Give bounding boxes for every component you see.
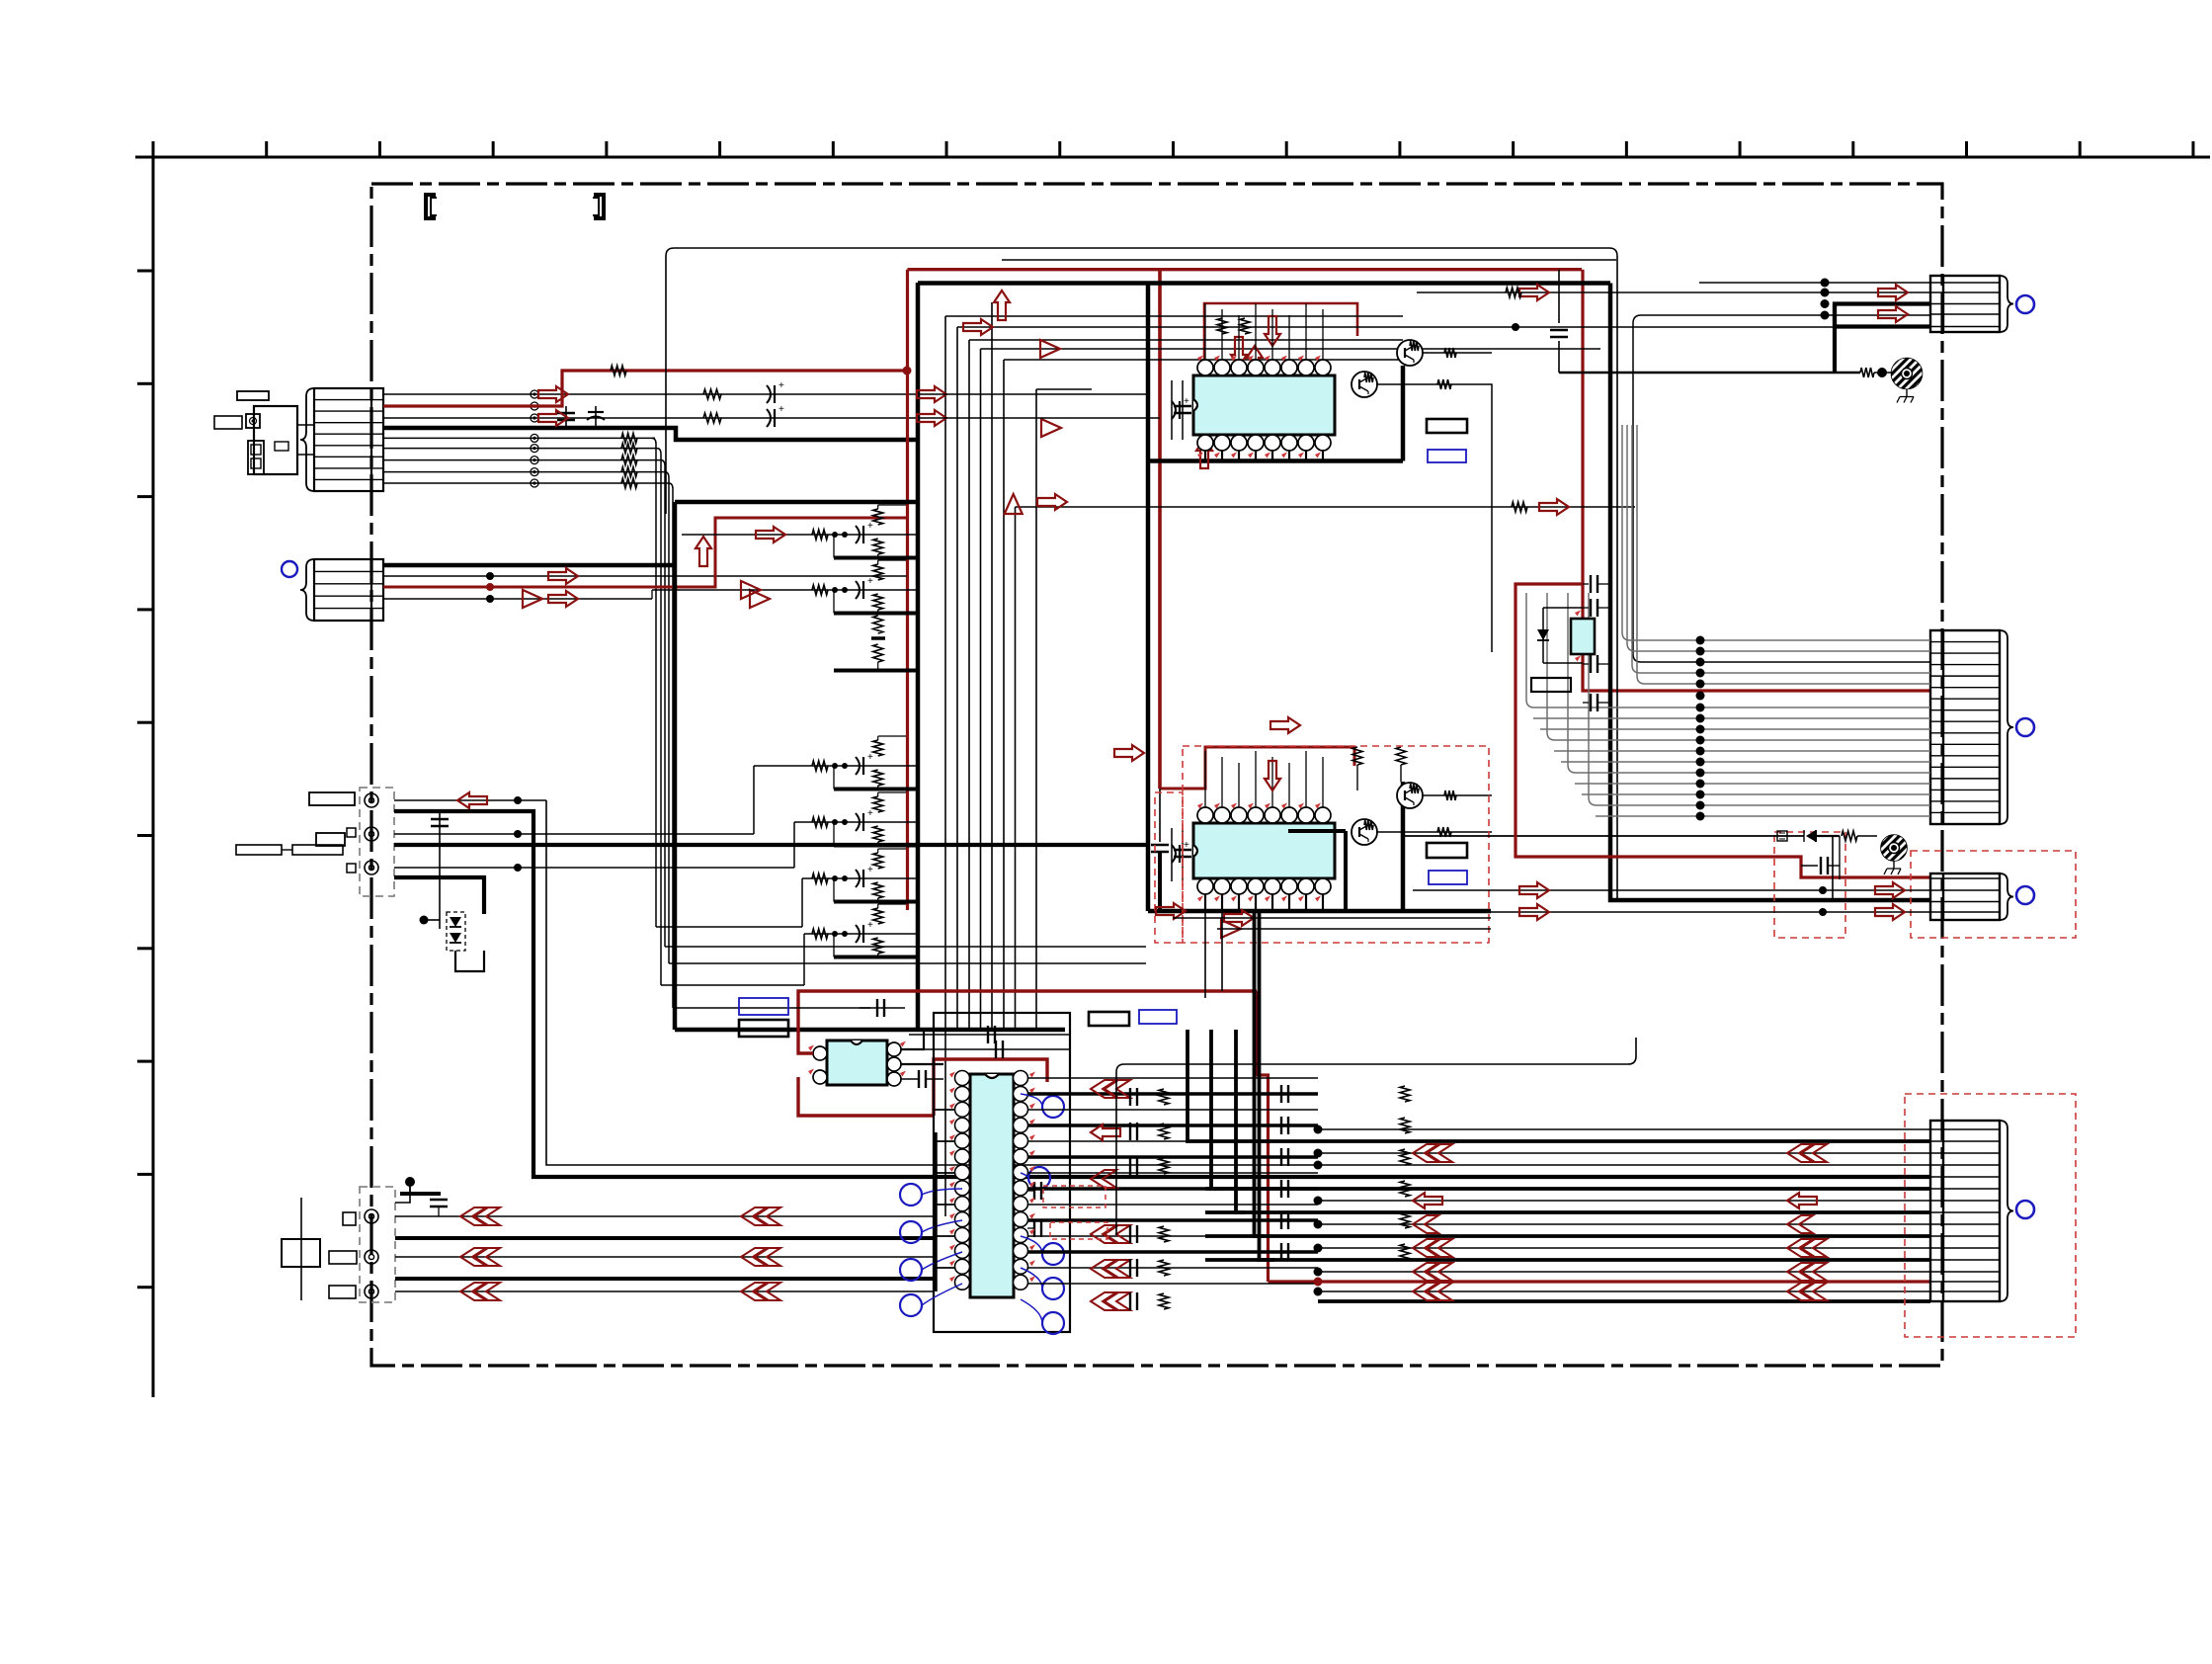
capacitor C-IC1a — [1172, 380, 1191, 440]
svg-text:+: + — [867, 521, 873, 532]
wire TB1 vertical thin run — [546, 800, 1930, 1165]
label box IC4 part-no — [1089, 1012, 1129, 1026]
resistor R-IC2 pullups — [1352, 747, 1406, 790]
wire IC2 bottom drops — [1205, 911, 1222, 998]
wire bus rows to CN-R4 — [1205, 1129, 1930, 1301]
arrow TB2 chevrons — [460, 1207, 780, 1300]
connector CN2 body — [300, 559, 383, 621]
op-amp IC1 body — [1193, 360, 1335, 451]
wire ground run CN-R1 — [1559, 368, 1891, 377]
wire red drop to CN-R2 — [1583, 270, 1930, 691]
filter parts left of bus — [1130, 1088, 1169, 1310]
diode D-TB1 pair — [420, 912, 485, 971]
wire IC2 aux collector — [1376, 827, 1492, 837]
capacitor C-IC2a — [1172, 828, 1191, 881]
wire CN1 pin4 thick bus — [383, 428, 918, 440]
wire red net from CN1 pin2 — [383, 371, 907, 406]
board name bracket right — [593, 195, 604, 218]
arrow IC4 chevrons — [1091, 1080, 1130, 1310]
diode D-IC5 — [1537, 608, 1583, 663]
junction dots upper rows — [903, 323, 1520, 375]
wire TB2 row thick2 — [395, 1277, 934, 1281]
wire bus staircase thick — [1188, 911, 1274, 1260]
arrow signal right-3 — [917, 410, 946, 426]
capacitor C-CNR1 — [1550, 270, 1568, 373]
wire CN-R3 pin2 — [1413, 886, 1930, 894]
junction CN1 pin node symbols — [531, 390, 538, 487]
wire IC1 bottom pin leads — [1205, 451, 1323, 460]
wire CN1 row1 extension — [933, 393, 1148, 395]
terminal TB1 labels — [236, 792, 356, 873]
wire red top bus — [908, 268, 1583, 271]
filter cluster row1 — [682, 505, 918, 558]
dashed box small near IC4 b — [1050, 1222, 1107, 1239]
connector CN1 mating block — [214, 391, 314, 474]
capacitor C-TB1 — [431, 811, 449, 929]
wire CN1 row3 extension — [933, 417, 1160, 419]
emi filter FB1 — [1777, 831, 1787, 841]
board name bracket left — [426, 195, 437, 218]
wire IC2 bottom pin leads — [1205, 894, 1323, 911]
label box IC2 ref (blue) — [1429, 871, 1467, 884]
junction dots CN-R2 — [1696, 636, 1705, 821]
dashed box around IC2 left — [1155, 792, 1183, 943]
regulator IC5 body — [1571, 619, 1595, 654]
wire thick bus vertical F — [1146, 284, 1151, 850]
wire TB1 pin1b thick run — [394, 811, 1930, 1177]
transistor Q1 — [1352, 372, 1377, 397]
arrow signal up-2 — [1005, 494, 1023, 514]
wire red vertical bus B — [1158, 270, 1162, 789]
transistor Q2 — [1397, 340, 1423, 366]
capacitor C-CN1a — [557, 406, 575, 428]
dashed box small near IC4 a — [1043, 1186, 1106, 1207]
wire IC3 right leads — [901, 1028, 943, 1088]
arrow signal tri-2 — [1041, 419, 1061, 437]
wire red branch over IC1 — [1204, 303, 1357, 371]
svg-text:+: + — [867, 808, 873, 819]
filter cluster row3 — [754, 736, 918, 834]
capacitor C-CN1c — [767, 380, 784, 427]
diode D-zener — [1804, 830, 1840, 842]
capacitor C-IC5b — [1583, 655, 1610, 711]
wire IC4 right fanout rows — [1028, 1078, 1318, 1284]
filter cluster row5 — [802, 849, 918, 927]
wire thick bus top — [918, 281, 1610, 286]
wire TB1 pin2 long — [394, 830, 754, 838]
node IC4 test points (blue) — [900, 1094, 1064, 1334]
transistor Q3 — [1352, 819, 1377, 845]
svg-text:+: + — [778, 380, 784, 391]
connector CN-R3 body — [1930, 874, 2013, 920]
wire thick IC1 ground bus — [1148, 366, 1403, 461]
wire IC2 aux collector2 — [1422, 790, 1492, 800]
wire TB2 pin2 — [395, 1256, 934, 1258]
wire IC2 lower thin row — [1173, 918, 1491, 929]
label box IC1 part-no — [1427, 419, 1467, 433]
svg-text:+: + — [867, 920, 873, 931]
wire CN-R1 pin4 — [1633, 299, 1930, 662]
dashed box CN-R3 — [1911, 851, 2076, 938]
wire IC1 aux collector — [1376, 379, 1492, 652]
resistor R-CN1a — [703, 389, 721, 423]
ic IC4 body — [955, 1071, 1028, 1298]
wire CN-R1 pin5 thick — [1835, 304, 1930, 327]
label box bottom blue — [739, 998, 788, 1015]
resistor marks upper — [611, 366, 1527, 512]
resistor R-CNR1 — [1506, 288, 1521, 297]
capacitor C-IC5a — [1583, 575, 1610, 617]
filter cluster row2 — [652, 560, 918, 614]
red pin tick marks — [808, 356, 1581, 1283]
arrow bus chevrons col1 — [1413, 1144, 1452, 1300]
svg-text:+: + — [867, 576, 873, 587]
wire TB1 pin1 sense — [394, 796, 546, 804]
wire right area verticals — [1832, 836, 1834, 900]
label box IC4 ref (blue) — [1139, 1010, 1177, 1024]
wire thick bus bottom — [675, 1028, 1065, 1033]
svg-text:+: + — [778, 404, 784, 415]
wire CN-R2 top feed bundle — [1622, 425, 1930, 684]
wire red vertical bus A — [906, 270, 909, 910]
wire red zener feed — [1516, 584, 1930, 877]
label box IC5 — [1531, 678, 1571, 692]
wire horizontal runs upper — [945, 316, 1853, 507]
wire thick bus vertical D — [916, 283, 921, 1030]
wire TB1 pin2b thick — [394, 843, 1148, 847]
arrow signal right-1 — [963, 319, 993, 335]
filter cluster row6 — [804, 904, 918, 985]
connector CN-R1 body — [1930, 276, 2013, 332]
wire CN-R1 pin3 thick — [1835, 304, 1930, 374]
capacitor C-IC4 decouple — [1027, 1182, 1041, 1237]
wire red loop IC3 — [798, 991, 1257, 1116]
page frame top tick marks — [153, 141, 2193, 157]
resistor R-zener — [1842, 831, 1877, 841]
arrow bus chevrons col2 — [1787, 1144, 1827, 1300]
arrow up into IC1 — [696, 439, 1212, 566]
wire CN-R2 lower feed bundle — [1526, 593, 1930, 816]
wire CN1 thin pin wires — [383, 394, 933, 483]
arrow signal up-1 — [994, 291, 1010, 320]
ground G2 — [1881, 835, 1907, 874]
wire TB2 row thick1 — [395, 1236, 934, 1240]
wire red vertical bus C — [1257, 991, 1269, 1282]
wire long top run A — [666, 248, 1617, 900]
capacitor C-IC3 top — [787, 999, 1070, 1058]
wire thick bus vertical E — [673, 502, 678, 1030]
wire thick bus H mid — [675, 500, 918, 505]
arrow CN1 out-1 — [538, 386, 568, 402]
capacitor bank right of IC4 — [1281, 1085, 1410, 1261]
connector CN-R3 destination circle — [2016, 886, 2034, 904]
wire IC4 left stubs — [934, 1110, 954, 1291]
terminal block TB1 — [360, 788, 394, 896]
wire CN-R1 pin1 — [1699, 279, 1930, 288]
wire CN1 fanned wires to filters — [621, 433, 1146, 1008]
wire thick IC2 ground bus — [1148, 782, 1491, 911]
connector CN-R2 body — [1930, 630, 2013, 824]
arrow CN2 out-1 — [523, 568, 770, 608]
antenna symbol left of TB2 — [282, 1198, 320, 1300]
wire TB1 pin3 long — [394, 864, 794, 872]
wire red jog to IC2 — [1160, 747, 1354, 789]
wire red IC4 top loop — [934, 1059, 1047, 1116]
wire vertical bundle center — [945, 302, 1036, 1216]
wire CN2 pin4 thin — [383, 595, 652, 603]
wire zener input — [1403, 835, 1804, 837]
ground G1 — [1892, 359, 1923, 403]
wire CN-R3 pin4 — [1413, 908, 1930, 916]
shield box IC4 — [934, 1013, 1070, 1332]
wire shield trace IC4 — [1116, 1038, 1636, 1235]
dashed box around IC2 — [1183, 746, 1489, 943]
oscillator IC3 body — [813, 1040, 901, 1086]
wire TB1 pin3b thick — [394, 877, 484, 914]
connector CN-R2 destination circle — [2016, 718, 2034, 736]
filter cluster row4 — [794, 792, 918, 868]
junction dots bus CN-R4 — [1314, 1125, 1323, 1296]
board outline (dash-dot border) — [371, 184, 1942, 1366]
connector CN-R4 destination circle — [2016, 1201, 2034, 1218]
terminal TB2 labels — [329, 1212, 357, 1298]
label box IC2 part-no — [1427, 843, 1467, 858]
dashed box CN-R4 — [1905, 1094, 2076, 1337]
wire IC1 top pin leads — [1205, 303, 1323, 360]
capacitor C-CN1b — [587, 406, 605, 428]
wire thick IC2 inner — [1288, 831, 1346, 911]
label box bottom black — [739, 1020, 788, 1037]
wire CN-R1 pin2 — [1417, 289, 1930, 297]
svg-text:+: + — [867, 865, 873, 875]
wire TB2 gnd stub — [395, 1177, 448, 1216]
arrow TB1 pin1 — [457, 792, 487, 808]
wire red net from CN2 pin3 — [383, 518, 907, 591]
svg-text:+: + — [867, 752, 873, 763]
arrow signal right-4 — [1037, 494, 1569, 515]
arrow down into IC1 — [1231, 316, 1280, 375]
connector CN-R1 destination circle — [2016, 295, 2034, 313]
page frame left ruler line — [152, 157, 155, 1397]
wire IC1 aux collector2 — [1217, 318, 1492, 358]
arrow CN-R1 feeds — [1519, 285, 1908, 322]
wire red feed to CN-R4 — [1269, 1280, 1931, 1283]
arrow into IC2 box — [1114, 717, 1300, 938]
arrow CN1 out-2 — [538, 410, 568, 426]
wire thick drop to CN-R3 — [1610, 284, 1930, 901]
transistor Q4 — [1397, 783, 1423, 808]
wire long top run B — [1002, 259, 1616, 261]
wire TB2 pin1 — [395, 1215, 934, 1217]
dashed box zener — [1774, 832, 1845, 938]
arrow signal tri-1 — [1040, 340, 1060, 358]
wire IC2 top pin leads — [1205, 751, 1323, 807]
terminal block TB2 — [360, 1187, 395, 1302]
page frame top ruler line — [135, 156, 2210, 159]
connector CN2 destination circle — [282, 561, 297, 577]
op-amp IC2 body — [1193, 807, 1335, 894]
wire CN2 pin1 thick — [383, 563, 675, 568]
page frame left tick marks — [137, 271, 153, 1288]
label box IC1 ref (blue) — [1428, 450, 1466, 462]
arrow signal right-2 — [917, 386, 946, 402]
connector CN-R4 body — [1930, 1121, 2013, 1301]
resistor chain below row2 — [834, 616, 917, 671]
wire thick IC2 stub — [1148, 789, 1169, 911]
wire CN2 pin2 thin — [383, 572, 907, 580]
capacitor C-zener — [1801, 836, 1840, 879]
arrow CN-R3 feeds — [1519, 882, 1905, 920]
wire TB2 pin3 — [395, 1290, 934, 1292]
connector CN1 body — [300, 388, 383, 491]
